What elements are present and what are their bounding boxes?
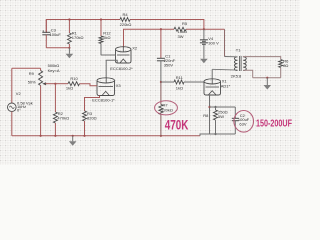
ground under V4 <box>200 59 208 63</box>
wire primary top lead <box>225 56 238 58</box>
wire node to R11 <box>161 81 174 83</box>
wire cathode row to C2 <box>210 106 236 108</box>
wire C3/R1 bottom <box>46 47 69 49</box>
wire anode rail (X2 plate to battery node) <box>124 29 175 47</box>
transformer T1 <box>231 47 247 78</box>
wire top B+ rail right segment <box>130 20 204 30</box>
resistor R12 <box>99 20 111 56</box>
node C3-R1 bottom <box>68 47 70 49</box>
resistor R3 <box>83 111 97 136</box>
capacitor C1 <box>157 29 176 82</box>
node rail pot <box>40 135 42 137</box>
wire cathode bottom row <box>200 134 235 136</box>
annotation ellipse around R7 label <box>155 101 178 115</box>
resistor R2 <box>53 84 69 136</box>
node battery top <box>203 28 205 30</box>
wire X2 cathode to X3 anode <box>106 60 117 77</box>
wire secondary top <box>243 57 281 60</box>
node secondary ground <box>266 77 268 79</box>
resistor R6 <box>279 59 289 78</box>
node rail R7 <box>160 135 162 137</box>
node C1-R7-R11 <box>160 81 162 83</box>
node rail ground <box>72 135 74 137</box>
node rail R2 <box>54 135 56 137</box>
wire anode rail right of R5 <box>186 28 225 30</box>
potentiometer R9 <box>28 63 60 136</box>
resistor R10 <box>66 76 80 90</box>
node R1 top <box>68 18 70 20</box>
node rail R3 <box>83 135 85 137</box>
resistor R5 <box>174 21 188 39</box>
capacitor C3 <box>42 20 61 48</box>
battery V4 <box>200 29 219 59</box>
resistor R1 <box>67 20 83 48</box>
annotation circle around C2 <box>234 111 254 133</box>
AC source V2 <box>8 68 33 136</box>
wire V2 top to pot <box>12 67 41 69</box>
wire wiper to R10 <box>55 83 68 85</box>
node R8 bottom <box>214 133 216 135</box>
wire B+ feed to transformer <box>224 29 226 56</box>
node R8 top <box>214 106 216 108</box>
wire pot wiper <box>46 83 56 85</box>
wire ground rail <box>12 135 200 137</box>
ground under R1 <box>66 48 74 58</box>
wire X2 grid <box>101 54 116 56</box>
resistor R4 <box>120 12 132 27</box>
wire secondary bottom <box>243 70 253 78</box>
wire R11 to X1 grid <box>184 81 204 83</box>
node cathode top row <box>208 106 210 108</box>
tube X1 (output) <box>204 78 230 95</box>
wire R10 to X3 grid <box>80 84 98 86</box>
node C1 top <box>160 28 162 30</box>
ground secondary <box>264 78 272 90</box>
wire X1 cathode <box>209 95 211 134</box>
wire primary bottom lead <box>212 68 237 71</box>
wire secondary return <box>253 77 281 79</box>
ground under rail <box>69 136 77 146</box>
resistor R11 <box>174 75 184 91</box>
resistor R7 <box>159 82 173 136</box>
tube X3 (input triode) <box>92 78 121 103</box>
wire top B+ rail left segment <box>46 20 120 34</box>
tube X2 (upper triode) <box>110 45 138 71</box>
wire X1 anode to transformer primary <box>211 69 213 78</box>
resistor R8 <box>203 107 227 134</box>
node R12 top <box>100 18 102 20</box>
node wiper junction <box>54 83 56 85</box>
wire X3 cathode <box>85 96 100 112</box>
capacitor C2 <box>232 107 250 134</box>
